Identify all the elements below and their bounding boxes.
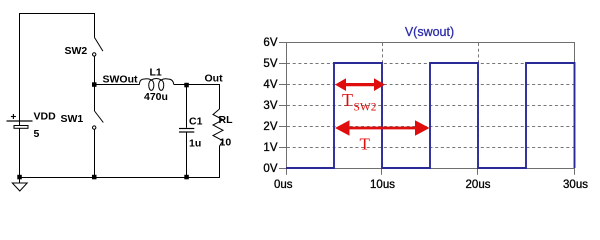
label SW2: [65, 45, 88, 57]
y axis ticks: [279, 43, 287, 169]
svg-text:0V: 0V: [263, 163, 277, 175]
svg-text:3V: 3V: [263, 100, 277, 112]
x axis ticks: [287, 169, 575, 175]
svg-text:4V: 4V: [263, 79, 277, 91]
label SW1: [61, 113, 84, 125]
svg-text:5: 5: [34, 128, 40, 140]
value 10: [220, 137, 232, 149]
annotation arrow T double-headed: [335, 120, 430, 136]
svg-text:V(swout): V(swout): [405, 25, 454, 39]
node Out junction dot: [184, 83, 189, 88]
plot frame: [287, 43, 575, 169]
value 5: [34, 128, 40, 140]
svg-text:30us: 30us: [563, 179, 588, 191]
wire top rail from VDD to SW2: [19, 13, 95, 15]
annotation label Tsw2: [342, 90, 377, 114]
switch SW2: [93, 13, 103, 85]
inductor L1: [139, 79, 173, 91]
grid horizontal dashed lines 1V-5V: [287, 64, 574, 148]
svg-text:1u: 1u: [189, 138, 201, 150]
label SWOut: [103, 74, 138, 86]
junction dot VDD bottom: [17, 175, 22, 180]
svg-text:10: 10: [220, 137, 232, 149]
capacitor C1: [179, 129, 194, 133]
annotation arrow Tsw2 double-headed: [335, 78, 385, 91]
voltage source VDD battery symbol: [7, 114, 33, 128]
svg-text:SW1: SW1: [61, 113, 84, 125]
trace V(swout) square wave: [286, 63, 575, 168]
junction dot SW1 bottom: [92, 175, 97, 180]
wire bottom rail: [19, 177, 220, 179]
svg-text:470u: 470u: [144, 91, 168, 103]
svg-text:VDD: VDD: [34, 111, 57, 123]
label Out: [205, 73, 224, 85]
svg-text:SWOut: SWOut: [103, 74, 138, 86]
label RL: [219, 114, 234, 126]
wire SWOut node to inductor: [94, 84, 140, 86]
svg-text:RL: RL: [219, 114, 234, 126]
wire C1 to bottom rail: [186, 132, 188, 177]
svg-text:L1: L1: [150, 67, 162, 79]
junction dot C1 bottom: [184, 175, 189, 180]
grid vertical dashed lines 10us 20us: [383, 43, 479, 168]
svg-text:2V: 2V: [263, 121, 277, 133]
wire RL to bottom rail: [219, 146, 221, 177]
svg-text:10us: 10us: [370, 179, 395, 191]
label VDD: [34, 111, 57, 123]
annotation label T: [360, 135, 371, 154]
resistor RL: [213, 109, 223, 146]
label C1: [189, 116, 203, 128]
svg-text:5V: 5V: [263, 58, 277, 70]
svg-text:T: T: [342, 90, 353, 110]
svg-text:20us: 20us: [466, 179, 491, 191]
svg-text:6V: 6V: [263, 37, 277, 49]
svg-text:1V: 1V: [263, 142, 277, 154]
plot title V(swout): [405, 25, 454, 39]
svg-text:0us: 0us: [274, 179, 293, 191]
svg-text:C1: C1: [189, 116, 203, 128]
switch SW1: [93, 85, 104, 178]
node SWOut junction dot: [92, 82, 97, 87]
wire left vertical VDD to top rail: [19, 13, 21, 121]
wire VDD bottom to ground rail: [19, 128, 21, 177]
x axis labels: [274, 179, 588, 191]
wire Out node down to C1: [186, 85, 188, 128]
wire inductor to Out corner: [174, 84, 220, 86]
y axis labels: [263, 37, 277, 175]
label L1: [150, 67, 162, 79]
ground: [12, 177, 27, 191]
svg-text:T: T: [360, 135, 371, 154]
wire right corner down to RL: [219, 85, 221, 110]
svg-text:Out: Out: [205, 73, 224, 85]
value 1u: [189, 138, 201, 150]
svg-text:SW2: SW2: [65, 45, 88, 57]
svg-text:SW2: SW2: [354, 102, 377, 114]
value 470u: [144, 91, 168, 103]
